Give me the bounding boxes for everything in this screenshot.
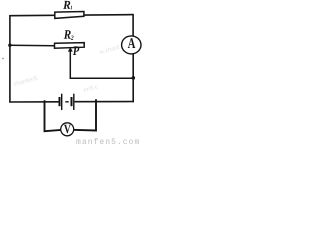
svg-text:manfen5.com: manfen5.com <box>76 138 140 145</box>
node junction right <box>132 76 136 80</box>
resistor R2 (rheostat) <box>55 43 85 49</box>
battery plate neg2 <box>71 97 73 106</box>
label P <box>73 46 79 55</box>
node junction left <box>8 44 11 47</box>
ammeter A1 <box>122 36 141 54</box>
battery plate neg1 <box>59 97 61 106</box>
wire bottom left <box>9 101 58 103</box>
wire bottom right <box>75 101 134 103</box>
resistor R1 <box>55 12 84 19</box>
node dot left margin <box>2 58 4 60</box>
wire voltmeter loop right <box>72 99 96 130</box>
label V <box>64 125 71 133</box>
voltmeter V1 <box>61 123 74 136</box>
label R2 <box>64 30 74 39</box>
battery plate pos2 <box>73 94 75 110</box>
battery plate pos1 <box>61 94 63 110</box>
label A <box>128 38 135 48</box>
wire right vertical upper <box>132 14 134 36</box>
watermark text faint <box>13 45 121 94</box>
wire left vertical <box>9 15 11 103</box>
wiper arrowhead of R2 <box>68 47 73 51</box>
label R1 <box>63 1 72 9</box>
wire wiper arm <box>70 51 133 78</box>
battery dash between cells <box>65 101 68 103</box>
wire R2 branch <box>10 44 55 46</box>
wire top <box>10 15 133 16</box>
wire right vertical lower <box>132 54 134 103</box>
wire voltmeter loop left <box>45 100 63 131</box>
